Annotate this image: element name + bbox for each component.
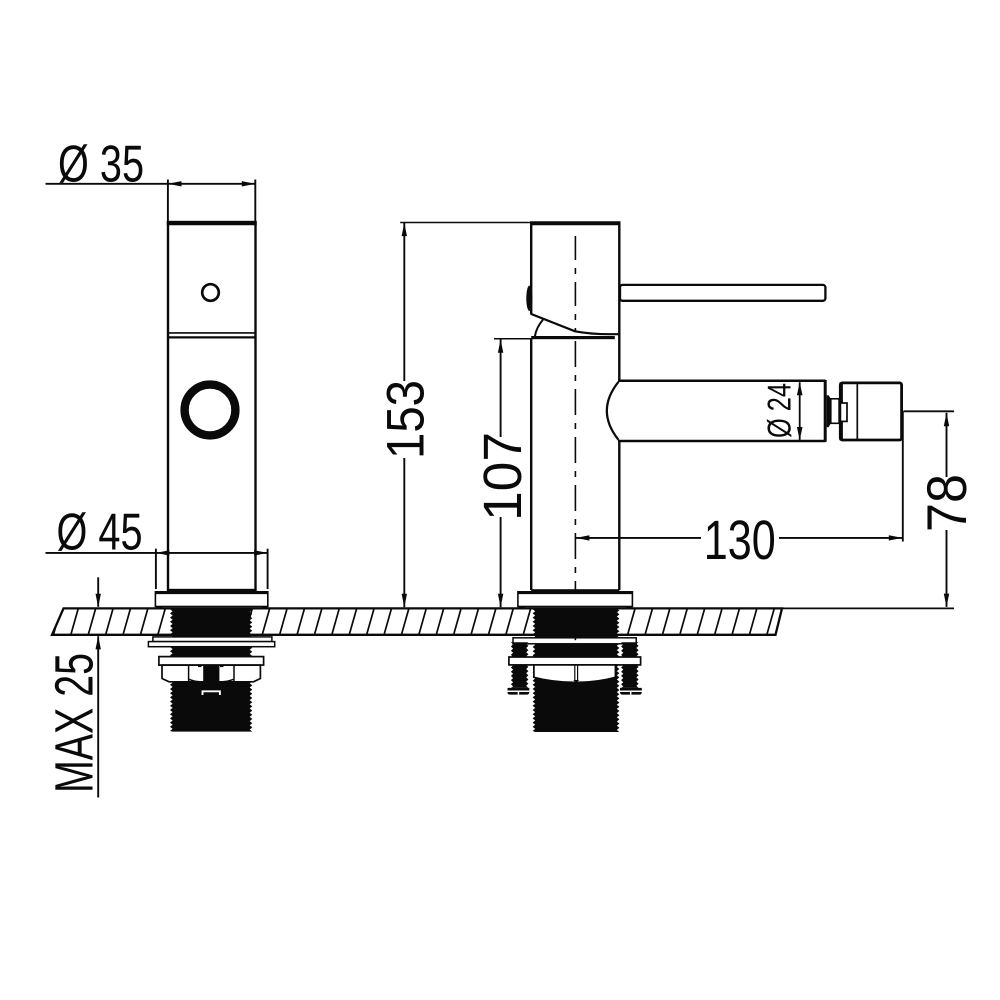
dim MAX 25 [97,577,99,607]
handle collar (tilted cap bottom) [531,314,619,334]
dim 78 [904,410,955,412]
handle lever [620,285,825,301]
aerator neck [827,395,831,427]
dim 130 [576,535,590,540]
right bracket plate [509,657,641,665]
right studs [511,642,529,688]
dashed centerline [574,236,576,331]
aerator cap [840,383,901,440]
svg-text:107: 107 [473,432,533,521]
svg-text:Ø 35: Ø 35 [58,135,144,193]
left nut plate [159,657,264,666]
left faucet front view [168,222,256,590]
svg-text:153: 153 [377,380,436,459]
left washers [153,637,272,642]
setscrew dot on cap side [526,286,532,311]
svg-text:Ø 24: Ø 24 [761,383,798,438]
spout end edge [824,380,827,442]
left threaded shank [170,609,252,731]
right washer [513,638,636,644]
dim Ø35 [46,183,256,185]
svg-text:130: 130 [704,509,776,571]
svg-text:MAX 25: MAX 25 [45,653,105,793]
aerator tab [840,403,847,421]
dim Ø45 [46,552,268,554]
dim Ø24 [797,382,803,395]
left rod white slot detail [203,691,220,695]
left hex nut facets [162,665,260,682]
right hex nut facets [534,665,616,682]
spout [605,382,825,439]
body top edge bar [531,336,615,339]
dim 153 [400,222,531,224]
dim 107 [494,338,531,340]
svg-text:78: 78 [915,474,978,532]
screw heads [508,688,530,695]
right faucet side view: body [530,222,620,590]
right bottom bar + flange [531,589,619,592]
right threaded shank [533,609,620,732]
svg-text:Ø 45: Ø 45 [57,504,143,562]
